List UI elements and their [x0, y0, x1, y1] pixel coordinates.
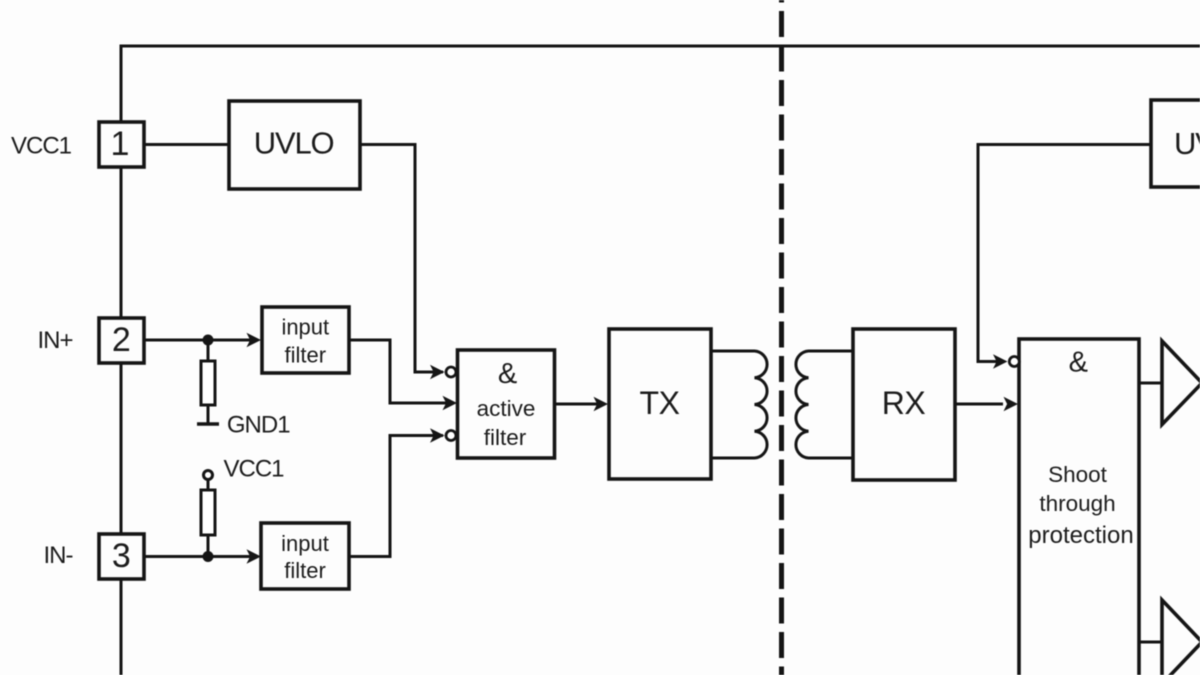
- svg-text:&: &: [1069, 347, 1088, 379]
- svg-text:3: 3: [112, 537, 131, 575]
- svg-text:IN+: IN+: [38, 327, 73, 354]
- svg-text:VCC1: VCC1: [224, 455, 285, 482]
- svg-text:filter: filter: [284, 558, 326, 583]
- svg-text:1: 1: [111, 125, 130, 163]
- svg-text:GND1: GND1: [227, 412, 290, 439]
- svg-text:IN-: IN-: [44, 542, 73, 569]
- svg-text:TX: TX: [640, 385, 680, 421]
- svg-text:RX: RX: [882, 385, 926, 421]
- svg-text:filter: filter: [484, 425, 527, 450]
- svg-text:input: input: [281, 531, 329, 556]
- svg-text:filter: filter: [285, 343, 327, 368]
- svg-text:protection: protection: [1028, 522, 1133, 549]
- svg-text:input: input: [281, 315, 329, 340]
- svg-text:2: 2: [112, 321, 131, 359]
- svg-text:&: &: [498, 358, 517, 390]
- svg-text:UVLO: UVLO: [254, 126, 334, 161]
- svg-text:Shoot: Shoot: [1048, 462, 1108, 487]
- svg-text:UVLO: UVLO: [1174, 126, 1200, 161]
- svg-text:through: through: [1039, 491, 1115, 516]
- svg-text:active: active: [477, 396, 536, 421]
- svg-text:VCC1: VCC1: [11, 132, 72, 159]
